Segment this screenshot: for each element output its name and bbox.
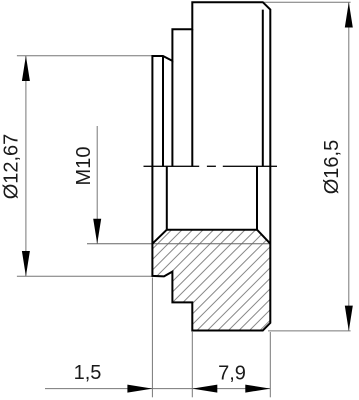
svg-text:7,9: 7,9 bbox=[218, 362, 246, 384]
cone edge line section A bbox=[162, 56, 164, 166]
chamfer end line left bbox=[166, 166, 168, 229]
extension line dia 16,5 top bbox=[263, 1, 351, 3]
centerline bbox=[144, 165, 278, 167]
bottom extension line at flange/body step bbox=[191, 332, 193, 398]
svg-text:Ø16,5: Ø16,5 bbox=[321, 140, 343, 194]
thread exit chamfer right bbox=[257, 230, 270, 244]
extension line dia 12,67 bottom bbox=[17, 275, 153, 277]
arrow dia 16,5 down bbox=[345, 306, 353, 331]
arrow dia 16,5 up bbox=[345, 2, 353, 27]
arrow dia 12,67 up bbox=[22, 56, 30, 81]
chamfer end line right bbox=[256, 166, 258, 229]
section hatching bbox=[51, 225, 359, 340]
dimension line dia 16,5 bbox=[348, 2, 350, 331]
dimension line dia 12,67 bbox=[25, 56, 27, 276]
bottom extension line at left face bbox=[151, 278, 153, 398]
dimension line M10 bbox=[96, 126, 98, 244]
face edge line B-C bbox=[191, 29, 193, 166]
face edge line A-B bbox=[171, 61, 173, 166]
bottom dimension line bbox=[45, 388, 270, 390]
arrow 7,9 right bbox=[245, 385, 270, 393]
arrow 1,5 right bbox=[127, 385, 152, 393]
thread entry chamfer left bbox=[152, 230, 166, 244]
arrow M10 down bbox=[93, 219, 101, 244]
svg-text:Ø12,67: Ø12,67 bbox=[1, 134, 23, 200]
bottom extension line at right face bbox=[269, 332, 271, 397]
svg-text:M10: M10 bbox=[73, 147, 95, 186]
arrow 7,9 left bbox=[192, 385, 217, 393]
part outer profile bbox=[152, 2, 270, 330]
svg-text:1,5: 1,5 bbox=[74, 362, 102, 384]
extension line dia 16,5 bottom bbox=[268, 330, 351, 332]
thread major line + M10 extension bbox=[87, 243, 270, 245]
arrow dia 12,67 down bbox=[22, 251, 30, 276]
extension line dia 12,67 top bbox=[17, 55, 153, 57]
chamfer edge line bbox=[262, 10, 264, 167]
thread minor line bbox=[167, 229, 257, 231]
